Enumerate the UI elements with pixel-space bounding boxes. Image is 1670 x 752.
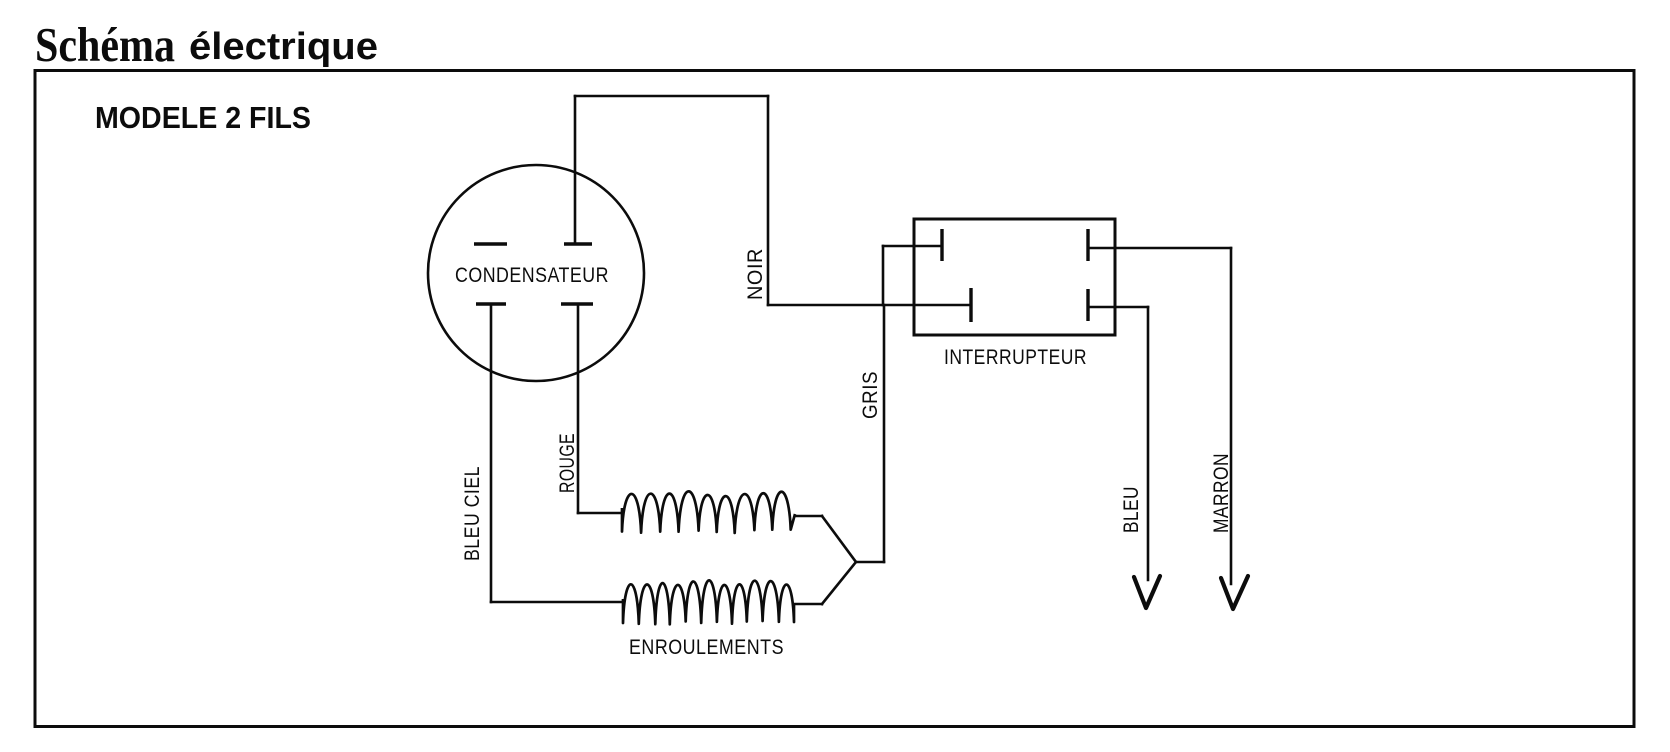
svg-text:MARRON: MARRON — [1209, 453, 1233, 533]
svg-text:ROUGE: ROUGE — [555, 433, 579, 493]
wire junction horizontal — [856, 561, 884, 564]
capacitor plate bottom-right — [561, 302, 593, 305]
svg-text:BLEU CIEL: BLEU CIEL — [460, 466, 484, 561]
wire NOIR horizontal to switch — [768, 304, 971, 307]
wire ROUGE vertical — [577, 306, 580, 513]
wire diagonal lower — [822, 562, 856, 604]
capacitor plate top-left — [474, 242, 507, 245]
svg-text:NOIR: NOIR — [743, 248, 767, 300]
capacitor C1 body circle — [428, 165, 644, 381]
wire GRIS vertical — [883, 305, 886, 562]
svg-text:électrique: électrique — [189, 26, 378, 68]
wire BLEU vertical — [1147, 307, 1150, 580]
wire switch bottom-right lead — [1088, 306, 1148, 309]
wire junction vertical — [882, 246, 885, 305]
wire MARRON vertical — [1230, 248, 1233, 584]
svg-text:BLEU: BLEU — [1119, 486, 1143, 533]
switch S1 box — [914, 219, 1115, 335]
switch terminal bar bottom-left — [969, 288, 972, 322]
svg-text:CONDENSATEUR: CONDENSATEUR — [455, 263, 609, 287]
inductor winding L1 (top) — [622, 491, 795, 533]
wire diagonal upper — [822, 516, 856, 562]
wire top coil tail — [795, 515, 822, 518]
arrowhead MARRON output — [1221, 576, 1248, 609]
wire switch top-left lead — [883, 245, 942, 248]
capacitor plate top-right — [564, 242, 592, 245]
capacitor plate bottom-left — [476, 302, 506, 305]
inductor winding L2 (bottom) — [623, 580, 794, 624]
svg-text:ENROULEMENTS: ENROULEMENTS — [629, 635, 784, 659]
svg-text:Schéma: Schéma — [35, 17, 175, 72]
wire BLEU CIEL vertical — [490, 306, 493, 602]
switch terminal bar bottom-right — [1086, 289, 1089, 321]
wire switch top-right lead — [1088, 247, 1231, 250]
wire top horizontal — [575, 95, 768, 98]
wire NOIR vertical — [767, 96, 770, 305]
switch terminal bar top-right — [1086, 229, 1089, 261]
svg-text:MODELE 2 FILS: MODELE 2 FILS — [95, 100, 311, 135]
wire BLEU CIEL horizontal lead — [491, 601, 623, 604]
wire capacitor top lead — [574, 96, 577, 242]
arrowhead BLEU output — [1134, 576, 1160, 608]
wire ROUGE horizontal lead — [578, 512, 622, 515]
wire bottom coil tail — [794, 603, 822, 606]
switch terminal bar top-left — [940, 229, 943, 261]
svg-text:GRIS: GRIS — [858, 371, 882, 419]
svg-text:INTERRUPTEUR: INTERRUPTEUR — [944, 345, 1087, 369]
